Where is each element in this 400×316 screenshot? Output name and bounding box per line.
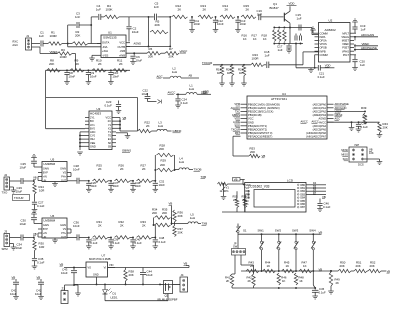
svg-text:10K: 10K xyxy=(369,151,374,155)
svg-text:LCD1602_V33: LCD1602_V33 xyxy=(249,185,270,189)
net arrow xyxy=(148,100,162,104)
wire sw top xyxy=(238,233,321,235)
svg-text:S9: S9 xyxy=(108,144,112,148)
wire xyxy=(72,54,76,71)
resistor R37 xyxy=(173,224,183,237)
svg-text:10uF: 10uF xyxy=(20,166,27,170)
wire vin line xyxy=(108,267,190,269)
svg-text:MCP1703-3.3MB: MCP1703-3.3MB xyxy=(89,257,111,261)
resistor R23 xyxy=(251,53,264,67)
resistor R17 xyxy=(252,30,281,42)
resistor R31 xyxy=(93,220,112,239)
net AVCC xyxy=(168,91,176,95)
svg-text:CY0: CY0 xyxy=(90,134,96,138)
svg-text:GBINF: GBINF xyxy=(173,129,182,133)
svg-text:OFSA: OFSA xyxy=(320,39,327,43)
svg-text:MISO: MISO xyxy=(341,153,348,157)
svg-text:1R: 1R xyxy=(217,71,221,75)
svg-text:SW: SW xyxy=(233,245,238,249)
wire lcd bottom xyxy=(222,190,250,212)
svg-text:SW3: SW3 xyxy=(292,229,299,233)
svg-text:GBINS: GBINS xyxy=(122,149,131,153)
ground xyxy=(308,68,314,73)
svg-text:VS: VS xyxy=(63,171,67,174)
resistor R45 xyxy=(282,261,295,273)
net ADCPHASE xyxy=(361,46,377,50)
inductor L2 xyxy=(163,67,199,79)
resistor R44 xyxy=(263,261,276,273)
capacitor C9 xyxy=(86,70,97,84)
resistor R5 xyxy=(150,20,168,34)
svg-text:VB: VB xyxy=(12,275,16,279)
svg-text:LCD: LCD xyxy=(287,179,294,183)
svg-text:AGCDC: AGCDC xyxy=(231,106,240,110)
svg-text:1uF: 1uF xyxy=(257,12,262,16)
svg-text:1uH: 1uH xyxy=(172,70,177,74)
svg-text:TXOB: TXOB xyxy=(194,168,202,172)
net VREF xyxy=(49,50,57,54)
wire VREF xyxy=(354,44,378,48)
wire sw bottom xyxy=(236,271,316,289)
capacitor C23 xyxy=(105,100,122,114)
svg-text:10uF: 10uF xyxy=(61,271,68,275)
svg-text:2K: 2K xyxy=(119,62,123,66)
U2 pin rows xyxy=(315,31,355,57)
capacitor C34 xyxy=(16,235,34,250)
svg-text:U4: U4 xyxy=(282,92,286,96)
svg-text:VB: VB xyxy=(33,232,37,236)
svg-text:R39: R39 xyxy=(361,106,367,110)
svg-text:PFLT: PFLT xyxy=(343,53,350,57)
svg-text:VDD: VDD xyxy=(289,1,295,5)
svg-text:1uF: 1uF xyxy=(278,48,283,52)
capacitor C6 xyxy=(130,53,142,64)
capacitor C39 shunt xyxy=(108,236,120,248)
U4 left net labels xyxy=(231,102,241,135)
wire loop top xyxy=(46,70,138,128)
svg-text:2K: 2K xyxy=(98,62,102,66)
svg-text:2K: 2K xyxy=(336,281,340,285)
svg-text:ISP: ISP xyxy=(355,143,360,147)
op-amp U1 xyxy=(101,31,126,58)
inductor L3 xyxy=(152,121,172,132)
net VB xyxy=(322,195,326,199)
svg-text:20K: 20K xyxy=(250,150,255,154)
svg-text:PB5(ADC8/XT2): PB5(ADC8/XT2) xyxy=(248,128,267,132)
svg-text:2K: 2K xyxy=(120,167,124,171)
svg-text:VB: VB xyxy=(369,148,373,152)
svg-text:MOSI: MOSI xyxy=(341,148,348,152)
svg-text:GAIN: GAIN xyxy=(43,167,49,170)
wire up xyxy=(154,225,156,237)
svg-text:2C: 2C xyxy=(108,119,111,123)
svg-text:1uF: 1uF xyxy=(39,34,44,38)
svg-text:PSET: PSET xyxy=(342,46,349,50)
svg-text:VCC: VCC xyxy=(248,117,254,121)
svg-text:10nF: 10nF xyxy=(112,75,119,79)
svg-text:VB: VB xyxy=(262,154,266,158)
svg-text:SW1: SW1 xyxy=(258,229,265,233)
svg-text:+IN: +IN xyxy=(43,232,47,235)
svg-text:0.1uF: 0.1uF xyxy=(113,241,120,245)
resistor R9 xyxy=(70,59,84,73)
net VDD xyxy=(325,64,331,68)
svg-text:10uF: 10uF xyxy=(136,59,143,63)
resistor R46 xyxy=(277,273,287,285)
wire to INPA xyxy=(302,28,319,35)
led LED1 xyxy=(103,284,118,300)
svg-text:10nF: 10nF xyxy=(90,75,97,79)
svg-text:Y1: Y1 xyxy=(108,123,112,127)
svg-text:INH: INH xyxy=(90,137,95,141)
net ADCGAIN xyxy=(361,33,374,37)
wire gbinf line xyxy=(120,130,138,132)
net VB2 xyxy=(319,267,323,271)
net VB xyxy=(12,275,16,279)
svg-text:LED1: LED1 xyxy=(111,295,118,299)
svg-text:R3: R3 xyxy=(61,48,65,52)
svg-text:1K: 1K xyxy=(286,264,290,268)
svg-text:10nF: 10nF xyxy=(135,184,142,188)
inductor L1 xyxy=(176,84,211,96)
wire xyxy=(68,25,76,44)
svg-text:RXC: RXC xyxy=(13,40,19,44)
svg-text:J1: J1 xyxy=(26,34,30,38)
svg-text:+IN: +IN xyxy=(43,175,47,178)
capacitor C26 shunt xyxy=(86,180,97,192)
svg-text:2K: 2K xyxy=(225,8,229,12)
svg-text:AB: AB xyxy=(189,74,193,78)
svg-text:J2: J2 xyxy=(4,173,7,177)
node xyxy=(110,69,112,71)
net TXCUR xyxy=(202,61,213,65)
net VDD xyxy=(203,90,209,94)
trimmer V1 xyxy=(218,182,245,196)
svg-text:10uF: 10uF xyxy=(142,92,149,96)
resistor R13 xyxy=(198,4,213,19)
svg-text:PB4(ADC7/XT1): PB4(ADC7/XT1) xyxy=(248,124,267,128)
svg-text:SSM2135: SSM2135 xyxy=(103,36,117,40)
svg-text:OFSB: OFSB xyxy=(320,46,327,50)
inductor L4 xyxy=(175,157,194,170)
capacitor C44 xyxy=(140,268,153,285)
svg-text:VI: VI xyxy=(104,267,107,270)
svg-text:VCC: VCC xyxy=(106,116,112,120)
svg-text:ADCGAIN: ADCGAIN xyxy=(361,33,374,37)
svg-text:0.1uF: 0.1uF xyxy=(361,125,369,129)
capacitor C43 xyxy=(61,268,77,286)
R28 R29 loop xyxy=(154,144,175,172)
node E xyxy=(215,16,217,18)
svg-text:1K: 1K xyxy=(253,37,257,41)
wire Q1 base xyxy=(261,16,284,18)
svg-text:10nF: 10nF xyxy=(90,184,97,188)
wire sw bus xyxy=(241,270,321,272)
svg-text:0.1uF: 0.1uF xyxy=(319,290,326,294)
svg-text:VPM: VPM xyxy=(234,102,240,106)
net VB xyxy=(33,176,37,180)
wire xyxy=(10,180,21,182)
ground xyxy=(310,27,316,33)
svg-text:(ADC0)PA0: (ADC0)PA0 xyxy=(313,102,327,106)
resistor R8 xyxy=(47,59,61,73)
net VB xyxy=(319,231,323,235)
inductor L5 xyxy=(177,213,202,224)
net label TXOUR xyxy=(13,195,30,201)
svg-text:VB: VB xyxy=(184,262,188,266)
svg-text:10nF: 10nF xyxy=(240,22,247,26)
capacitor C30 xyxy=(20,211,43,226)
svg-text:OUTA: OUTA xyxy=(102,41,109,45)
net VB xyxy=(184,262,190,268)
svg-text:R6: R6 xyxy=(149,47,153,51)
svg-text:20K: 20K xyxy=(160,163,165,167)
wire xyxy=(65,284,75,290)
capacitor C21 xyxy=(315,65,335,79)
svg-text:2K: 2K xyxy=(248,279,252,283)
svg-text:2K: 2K xyxy=(76,62,80,66)
resistor R56 xyxy=(242,194,247,207)
svg-text:ADCPHASE: ADCPHASE xyxy=(361,46,377,50)
capacitor C37 shunt xyxy=(108,180,119,192)
svg-text:10nF: 10nF xyxy=(159,183,166,187)
svg-text:OUT: OUT xyxy=(61,179,67,182)
svg-text:AGND: AGND xyxy=(134,41,142,45)
capacitor C24 xyxy=(175,94,188,108)
amp U6 xyxy=(38,214,71,239)
svg-text:AGND: AGND xyxy=(319,117,327,121)
net VB box xyxy=(233,177,245,185)
svg-text:VB: VB xyxy=(123,116,127,120)
svg-text:BYP: BYP xyxy=(43,228,48,231)
svg-text:R29: R29 xyxy=(161,159,167,163)
svg-text:TXB: TXB xyxy=(201,175,207,179)
svg-text:VEE: VEE xyxy=(90,141,95,145)
resistor R11 xyxy=(113,59,127,73)
svg-text:U5: U5 xyxy=(51,158,55,162)
svg-text:VO: VO xyxy=(88,267,92,270)
svg-text:U1: U1 xyxy=(108,31,112,35)
svg-text:INPB: INPB xyxy=(320,49,326,53)
svg-text:20K: 20K xyxy=(75,34,80,38)
svg-text:-IN: -IN xyxy=(43,179,46,182)
ground xyxy=(10,187,17,193)
svg-text:1uF: 1uF xyxy=(361,28,366,32)
svg-text:GBINS: GBINS xyxy=(232,113,240,117)
resistor R47 xyxy=(299,261,312,273)
ground xyxy=(221,197,227,200)
svg-text:1K: 1K xyxy=(243,37,247,41)
svg-text:100R: 100R xyxy=(50,34,58,38)
svg-text:20K: 20K xyxy=(178,231,183,235)
svg-text:10nF: 10nF xyxy=(194,22,201,26)
capacitor C20b xyxy=(300,34,302,41)
resistor R20 xyxy=(226,65,234,76)
svg-text:0.1uF: 0.1uF xyxy=(318,75,325,79)
svg-text:0.1uF: 0.1uF xyxy=(90,241,97,245)
resistor R6 xyxy=(147,47,161,59)
svg-text:PB0(DC1A/DI) (SDA/MOSI): PB0(DC1A/DI) (SDA/MOSI) xyxy=(248,102,280,106)
capacitor C12 xyxy=(213,17,224,33)
net TXOB2 xyxy=(202,222,208,226)
svg-text:(ADC2)PA2: (ADC2)PA2 xyxy=(313,110,327,114)
svg-text:10R: 10R xyxy=(39,245,44,249)
svg-text:20K: 20K xyxy=(362,115,367,119)
mcu U4 xyxy=(247,92,327,139)
svg-text:PH+: PH+ xyxy=(61,175,66,178)
net VDD xyxy=(201,90,207,94)
wire U1 pins xyxy=(97,43,130,56)
svg-text:INPA: INPA xyxy=(320,35,326,39)
U4 right net labels xyxy=(335,102,350,120)
svg-text:+INA: +INA xyxy=(102,49,108,53)
svg-text:AVCC: AVCC xyxy=(319,120,326,124)
amp U5 xyxy=(38,158,71,183)
svg-text:1uH: 1uH xyxy=(190,216,195,220)
node xyxy=(33,237,35,239)
capacitor C15 xyxy=(296,13,302,31)
svg-text:2K: 2K xyxy=(178,8,182,12)
svg-text:ATTINY461: ATTINY461 xyxy=(271,97,287,101)
svg-text:(AREF)PA3: (AREF)PA3 xyxy=(313,113,327,117)
wire bottom rail xyxy=(273,43,303,45)
svg-text:0.1uF: 0.1uF xyxy=(181,101,189,105)
node F xyxy=(237,16,239,18)
svg-text:-VSS: -VSS xyxy=(102,53,108,57)
svg-text:1K: 1K xyxy=(263,37,267,41)
svg-text:RST: RST xyxy=(235,131,241,135)
svg-text:20K: 20K xyxy=(370,264,375,268)
net GBINS xyxy=(122,149,131,153)
switches SW1-SW4 xyxy=(258,229,316,272)
wire J1 low xyxy=(32,47,58,54)
U4 pin rows xyxy=(241,102,334,138)
svg-text:LM386M: LM386M xyxy=(44,219,56,223)
svg-text:2Y1: 2Y1 xyxy=(90,116,95,120)
wire up xyxy=(154,170,156,181)
svg-text:R7: R7 xyxy=(169,47,173,51)
svg-text:VB: VB xyxy=(319,231,323,235)
wire R6 row xyxy=(126,52,147,54)
svg-text:2K: 2K xyxy=(146,124,150,128)
svg-text:X1: X1 xyxy=(108,126,112,130)
resistor R39 xyxy=(334,106,368,124)
svg-text:10nF: 10nF xyxy=(73,168,80,172)
wire xyxy=(32,43,41,45)
resistor R26 xyxy=(115,164,134,183)
svg-text:SPM: SPM xyxy=(2,247,9,251)
svg-text:SCK: SCK xyxy=(235,124,241,128)
net TXB xyxy=(201,175,207,179)
svg-text:AVCC: AVCC xyxy=(168,91,176,95)
svg-text:(ADC1)PA1: (ADC1)PA1 xyxy=(313,106,327,110)
svg-text:1uH: 1uH xyxy=(189,87,194,91)
capacitor C13 xyxy=(235,17,246,33)
svg-text:ADC: ADC xyxy=(90,130,96,134)
ground xyxy=(219,76,225,86)
svg-text:100R: 100R xyxy=(252,57,259,61)
svg-text:LCDE: LCDE xyxy=(233,120,240,124)
svg-text:VB: VB xyxy=(234,177,238,181)
svg-text:10nF: 10nF xyxy=(73,224,80,228)
svg-text:20K: 20K xyxy=(159,147,164,151)
power VDD xyxy=(287,1,297,5)
wire xyxy=(67,236,77,238)
ground xyxy=(52,182,58,187)
net VB xyxy=(169,202,173,206)
svg-text:1nF: 1nF xyxy=(154,5,159,9)
capacitor C20 xyxy=(352,55,365,71)
svg-text:VS: VS xyxy=(63,228,67,231)
capacitor C47 xyxy=(352,122,369,133)
svg-text:0.1uF: 0.1uF xyxy=(37,204,45,208)
svg-text:VMAG: VMAG xyxy=(341,35,349,39)
net VB xyxy=(123,116,127,120)
header ISP xyxy=(341,143,382,167)
svg-text:1uF: 1uF xyxy=(360,63,365,67)
lcd module xyxy=(245,179,306,213)
net VREF xyxy=(362,42,370,46)
net VB xyxy=(37,275,41,279)
ground xyxy=(241,76,247,86)
svg-text:1R: 1R xyxy=(227,71,231,75)
capacitor C36 xyxy=(73,221,89,241)
wire xyxy=(64,267,80,269)
capacitor C42 xyxy=(35,279,44,300)
svg-text:1K: 1K xyxy=(299,279,303,283)
svg-text:VREF: VREF xyxy=(49,50,57,54)
header SW xyxy=(232,242,246,256)
resistor R18 xyxy=(262,30,287,42)
resistor R19 xyxy=(216,65,224,76)
resistor R14 xyxy=(220,4,235,19)
svg-text:1R: 1R xyxy=(239,71,243,75)
wire OUTB xyxy=(126,46,171,48)
capacitor C3 xyxy=(75,12,91,29)
capacitor C10 xyxy=(108,70,119,84)
svg-text:PB2(DC1B/SCL/SCK): PB2(DC1B/SCL/SCK) xyxy=(248,110,274,114)
wire ADCPHASE xyxy=(354,49,378,52)
svg-text:VB: VB xyxy=(169,202,173,206)
transistor Q1 xyxy=(270,2,291,28)
connector J1 xyxy=(12,34,31,50)
svg-text:VDD: VDD xyxy=(325,64,331,68)
svg-text:MFLT: MFLT xyxy=(342,31,349,35)
net AVCC xyxy=(301,120,319,124)
svg-text:E1: E1 xyxy=(108,137,112,141)
svg-text:GAIN: GAIN xyxy=(60,224,66,227)
resistor R53 xyxy=(233,136,260,158)
connector J3 xyxy=(2,230,10,252)
wire xyxy=(213,64,251,66)
svg-text:10uF: 10uF xyxy=(16,246,23,250)
net VB xyxy=(60,262,64,266)
svg-text:(ADC5)PA5: (ADC5)PA5 xyxy=(313,128,327,132)
node xyxy=(66,69,68,71)
svg-text:10uF: 10uF xyxy=(132,30,139,34)
resistor R27 xyxy=(137,164,156,183)
svg-text:1K: 1K xyxy=(267,264,271,268)
svg-text:TXOUR: TXOUR xyxy=(14,196,23,200)
resistor R41 xyxy=(225,255,236,288)
wire xyxy=(62,43,101,45)
net AGC xyxy=(157,74,163,78)
svg-text:20K: 20K xyxy=(152,211,157,215)
svg-text:-INB: -INB xyxy=(120,49,126,53)
svg-text:TXO: TXO xyxy=(2,191,9,195)
svg-text:(ADC4)PA4: (ADC4)PA4 xyxy=(313,124,327,128)
svg-text:J4: J4 xyxy=(181,273,184,277)
